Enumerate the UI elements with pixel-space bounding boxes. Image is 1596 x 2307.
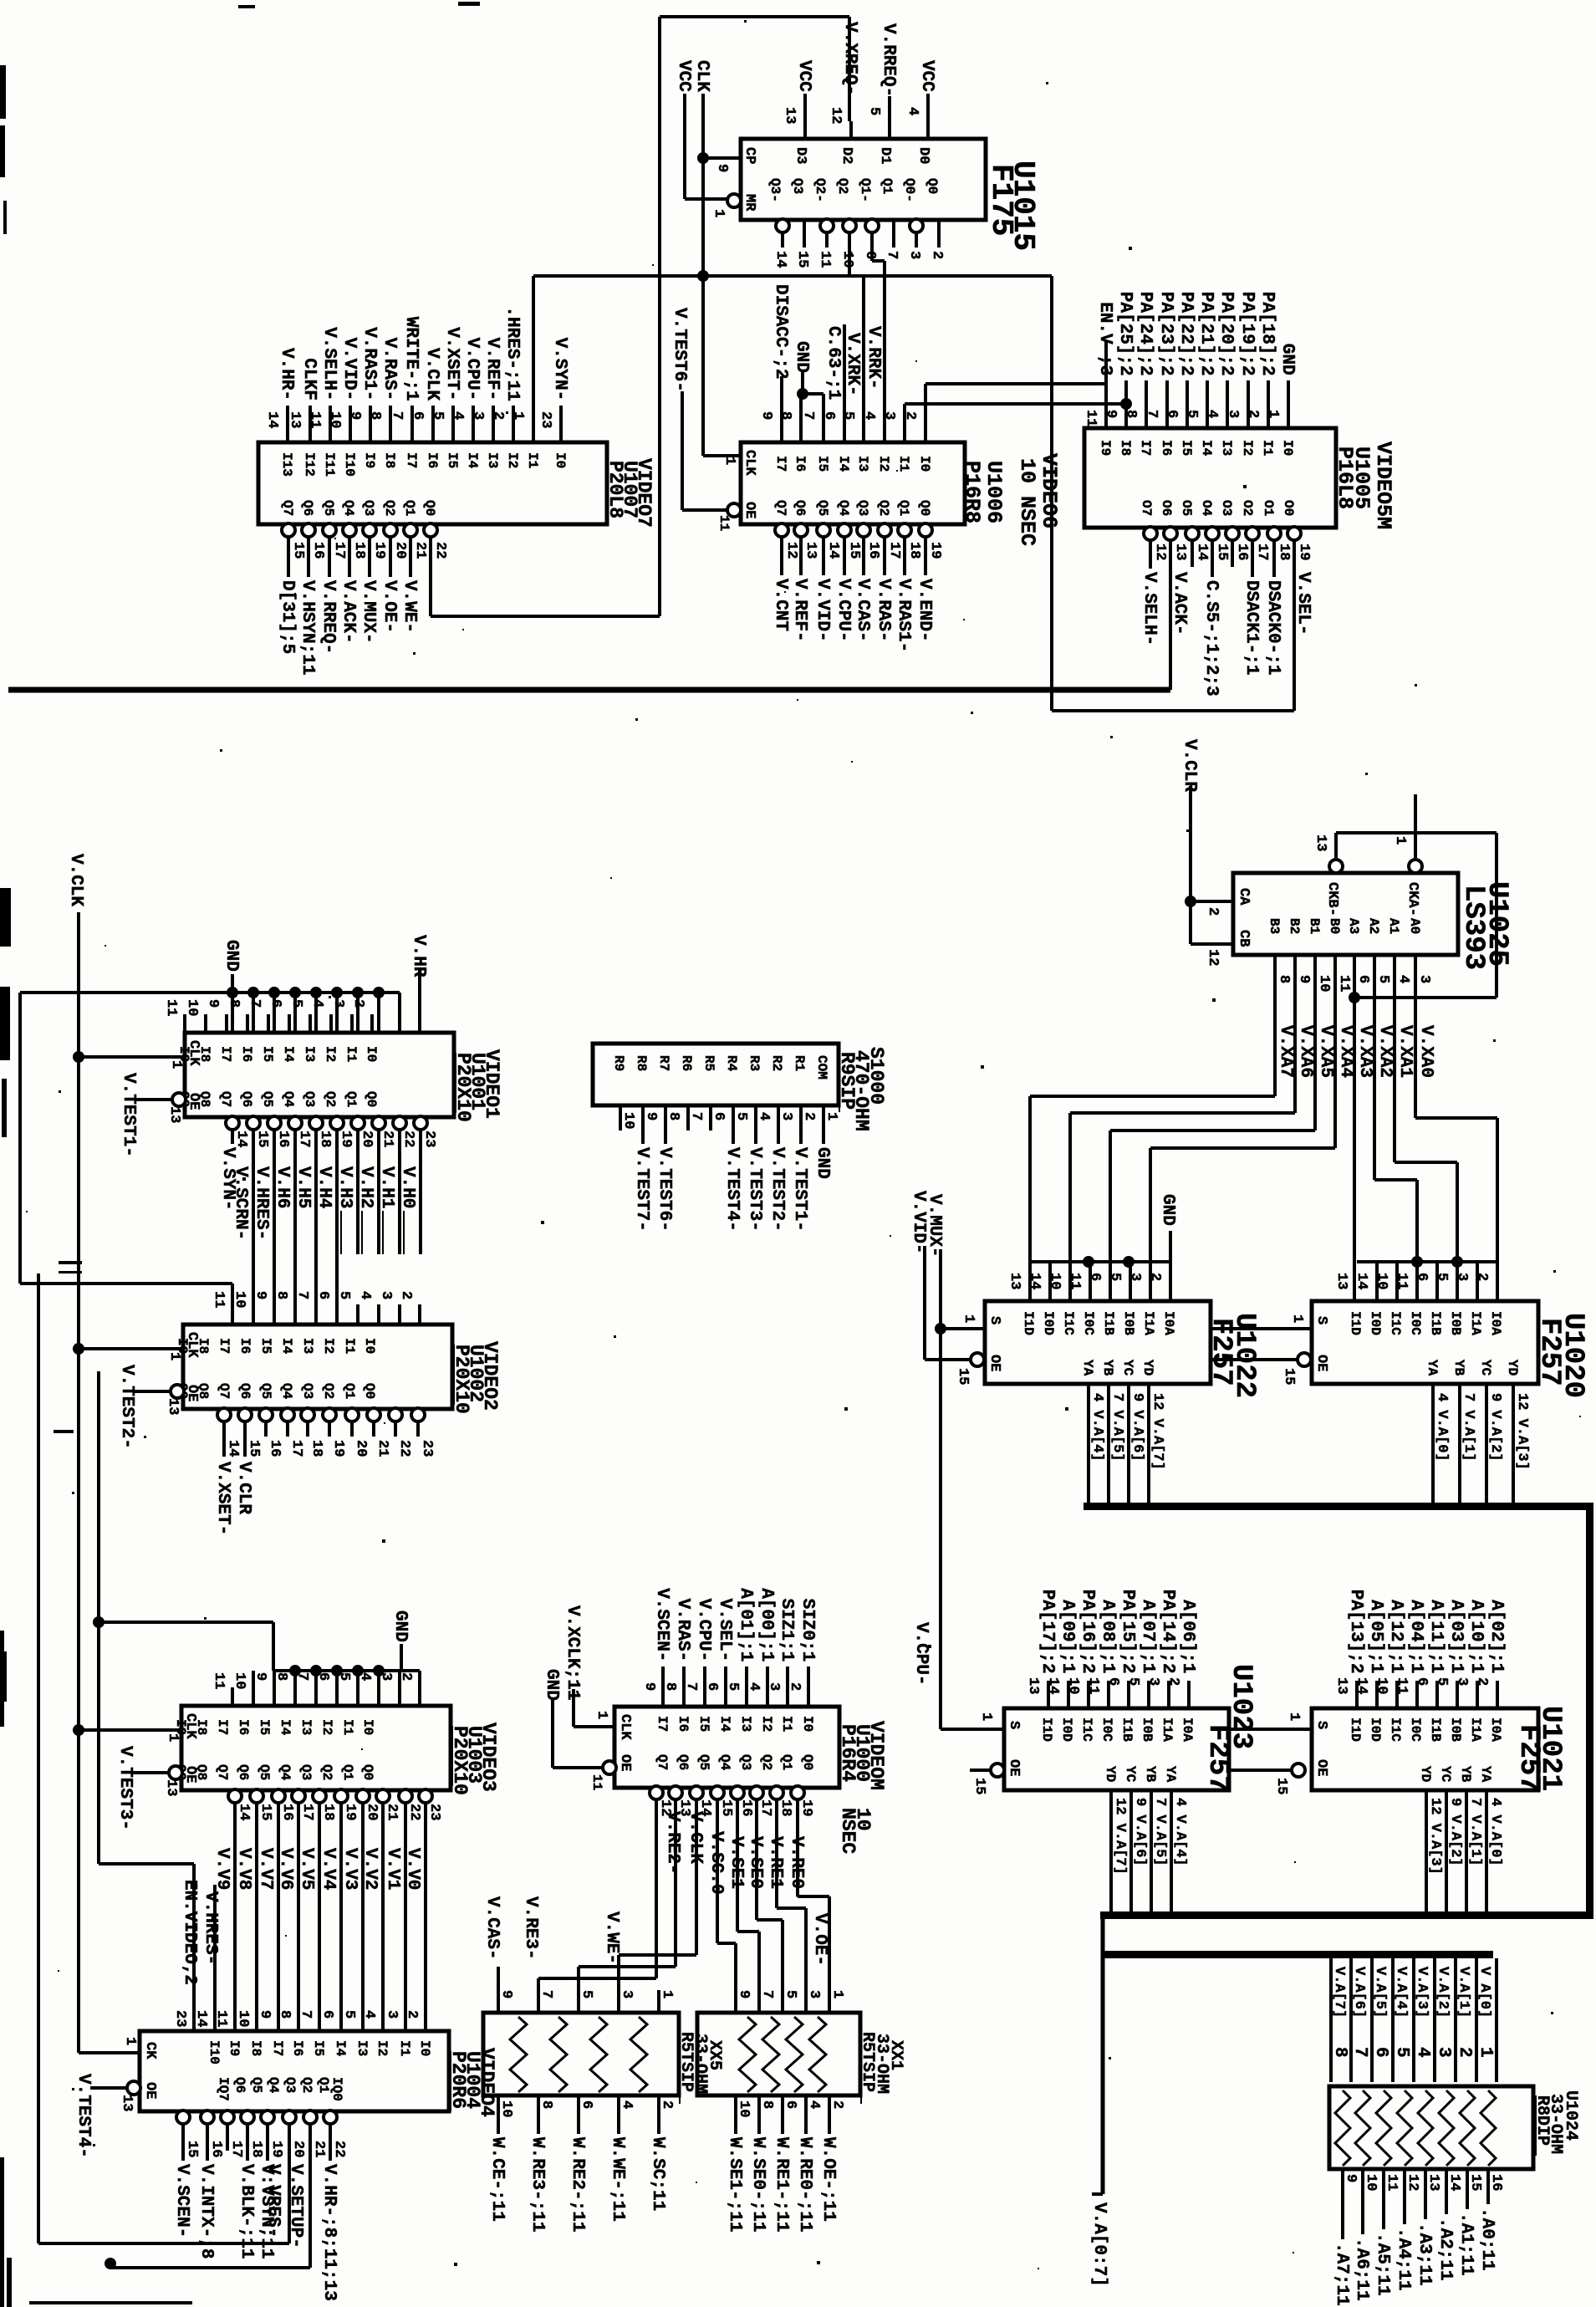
svg-text:4 V.A[4]: 4 V.A[4] [1172,1798,1188,1866]
svg-text:R1: R1 [792,1055,807,1071]
wire CLK net down to U1006 CLK pin 1 [697,270,709,282]
wire rail x24 from U1001 bus to U1002 [18,993,22,1284]
svg-text:Q6: Q6 [239,1091,254,1107]
svg-text:11: 11 [1336,975,1352,992]
svg-text:V.XA4: V.XA4 [1336,1025,1355,1078]
svg-text:U1006: U1006 [982,461,1006,523]
ic U1003 VIDEO3 box [181,1706,451,1790]
svg-text:Q3-: Q3- [767,178,783,202]
svg-text:4: 4 [450,411,466,420]
svg-text:4: 4 [357,1672,373,1681]
ic U1001 VIDEO1 left pin 13 OE bubble [172,1093,186,1106]
svg-text:5: 5 [430,411,446,420]
svg-text:I1A: I1A [1160,1717,1175,1742]
svg-text:11: 11 [213,2010,229,2027]
svg-text:V.XA2: V.XA2 [1375,1025,1395,1078]
wire V.XA4 to U1022 pin 3 [1333,1025,1337,1148]
svg-text:15: 15 [184,2141,200,2157]
svg-text:V.RAS-: V.RAS- [380,338,399,401]
svg-text:W.SE0-;11: W.SE0-;11 [748,2137,767,2232]
svg-text:DISACC-;2: DISACC-;2 [771,284,790,379]
wire U1025 pin13 loop right [1336,831,1497,835]
svg-text:I0B: I0B [1448,1717,1463,1742]
svg-text:V.OE-: V.OE- [810,1913,829,1966]
svg-text:I0A: I0A [1161,1311,1176,1335]
svg-text:Q3: Q3 [302,1091,317,1107]
svg-text:A[06];1: A[06];1 [1178,1600,1197,1673]
svg-text:15: 15 [1467,2174,1483,2191]
svg-text:O7: O7 [1139,500,1154,516]
svg-text:A[12];1: A[12];1 [1386,1600,1405,1673]
svg-text:A3: A3 [1346,918,1361,934]
svg-text:7: 7 [298,2010,314,2019]
svg-text:OE: OE [1006,1759,1022,1776]
ic XX5 bottom pins with numbers and labels [497,2095,500,2134]
svg-text:2: 2 [490,411,506,420]
svg-text:I1A: I1A [1468,1717,1483,1742]
wire crossbar above U1020 pins with junctions [1357,1260,1497,1263]
svg-text:I9: I9 [227,2040,242,2056]
ic U1001 VIDEO1 box [185,1033,454,1117]
svg-text:V.XA3: V.XA3 [1355,1025,1374,1078]
svg-text:Q2: Q2 [319,1764,334,1780]
svg-text:I1: I1 [1260,440,1275,456]
svg-text:PA[24];2: PA[24];2 [1135,292,1155,376]
svg-text:V.A[6]: V.A[6] [1351,1967,1367,2018]
svg-text:I0: I0 [1280,440,1295,456]
svg-text:10: 10 [839,251,855,268]
svg-text:O4: O4 [1199,500,1214,517]
svg-text:22: 22 [432,542,448,559]
wire OE chain U1023 to U1021 OE pin15 bubble [1229,1769,1292,1772]
svg-text:I6: I6 [425,452,440,468]
svg-text:V.TEST2-: V.TEST2- [767,1147,787,1232]
bus wire above U1001 with junctions [20,991,400,994]
svg-text:V.HRES-: V.HRES- [252,1166,271,1240]
svg-text:OE: OE [617,1754,633,1771]
svg-text:V.RAS-: V.RAS- [874,579,893,642]
svg-text:YA: YA [1163,1766,1178,1783]
svg-text:9: 9 [1103,410,1119,418]
svg-text:I5: I5 [445,452,460,468]
svg-text:V A[0]: V A[0] [1476,1967,1492,2018]
net labels GND V.TEST on S1000 pins [822,1131,825,1144]
svg-text:13: 13 [1425,2174,1441,2191]
pin label VCC on U1015 pin 4 [926,94,930,121]
svg-text:W.RE1-;11: W.RE1-;11 [772,2137,791,2232]
svg-text:CKA-: CKA- [1405,882,1420,916]
svg-text:V.WE-: V.WE- [602,1911,621,1964]
ic U1004 VIDEO4 P20R6 box [140,2031,449,2111]
svg-text:16: 16 [279,1804,295,1820]
svg-text:V.SCEN-: V.SCEN- [652,1588,671,1661]
svg-text:PA[15];2: PA[15];2 [1118,1590,1137,1674]
svg-text:YB: YB [1458,1766,1473,1783]
svg-text:PA[17];2: PA[17];2 [1038,1590,1057,1674]
svg-text:COM: COM [814,1055,829,1079]
svg-text:I4: I4 [717,1716,732,1733]
svg-text:V.A[2]: V.A[2] [1435,1967,1451,2018]
svg-text:Q3: Q3 [855,500,870,516]
svg-text:12: 12 [1405,2174,1420,2191]
svg-text:9 V.A[2]: 9 V.A[2] [1487,1393,1503,1462]
ic S1000 bottom pins 1-10 [822,1105,825,1131]
svg-text:9: 9 [643,1112,659,1120]
ic U1025 top pin 13 CKB- bubble and wire loop [1329,860,1343,873]
svg-text:10: 10 [235,2010,251,2027]
svg-text:3: 3 [766,1682,782,1691]
svg-text:5: 5 [579,1990,594,1998]
svg-text:.A4;11: .A4;11 [1394,2228,1413,2291]
svg-text:12: 12 [783,542,799,559]
svg-text:5: 5 [336,1672,352,1681]
svg-text:4: 4 [905,107,920,115]
svg-text:9: 9 [758,411,774,420]
svg-text:YB: YB [1451,1360,1466,1376]
svg-text:V.HRES-: V.HRES- [201,1891,220,1965]
svg-text:I4: I4 [279,1338,294,1355]
svg-text:9: 9 [1296,975,1312,983]
wire U1004 pin 17 stub [226,2137,229,2151]
svg-text:V.HR-: V.HR- [409,935,428,988]
svg-text:I1A: I1A [1141,1311,1156,1335]
svg-text:23: 23 [538,411,553,428]
svg-text:XX5: XX5 [705,2040,724,2070]
svg-text:V.VID-: V.VID- [339,338,359,401]
svg-text:R4: R4 [724,1055,739,1072]
wires U1001 pins 15-19 to U1002 pins with net labels [252,1129,255,1324]
svg-text:V.A[5]: V.A[5] [1372,1967,1388,2018]
svg-text:I2: I2 [319,1719,334,1735]
svg-text:VCC: VCC [794,60,813,92]
svg-text:GND: GND [792,341,811,373]
svg-text:I3: I3 [300,1338,315,1354]
svg-text:EN.VIDEO;2: EN.VIDEO;2 [180,1880,199,1985]
svg-text:I0: I0 [362,1338,377,1354]
svg-text:15: 15 [1214,544,1230,560]
svg-text:10: 10 [620,1112,636,1129]
svg-text:6: 6 [783,2100,798,2109]
svg-text:W.RE3-;11: W.RE3-;11 [528,2137,547,2232]
svg-text:C.63-;1: C.63-;1 [823,326,843,400]
svg-text:I5: I5 [815,456,830,472]
svg-text:IQ0: IQ0 [329,2077,344,2101]
svg-text:V.XA0: V.XA0 [1416,1025,1435,1078]
svg-text:B3: B3 [1267,918,1282,934]
svg-text:VCC: VCC [674,60,693,92]
svg-text:3: 3 [1225,410,1241,418]
svg-text:15: 15 [246,1440,262,1457]
svg-text:U1015: U1015 [1006,161,1040,251]
wire U1000 pin17 to XX1 pin5 [755,1799,758,1920]
svg-text:14: 14 [1354,1677,1369,1694]
svg-text:V.TEST4-: V.TEST4- [722,1147,742,1232]
svg-text:1: 1 [1265,410,1281,418]
svg-text:DSACK1-;1: DSACK1-;1 [1242,580,1261,675]
ic U1025 top pin 1 CKA- bubble and wire [1409,860,1422,873]
svg-text:8: 8 [273,1672,289,1681]
svg-text:YA: YA [1478,1766,1493,1783]
svg-text:V.HSYN;11: V.HSYN;11 [298,580,317,675]
svg-text:9 V.A[6]: 9 V.A[6] [1132,1798,1148,1866]
svg-text:3: 3 [1454,1677,1470,1686]
svg-text:Q0: Q0 [364,1091,379,1107]
svg-text:8: 8 [538,2100,554,2109]
svg-text:10: 10 [1065,1677,1081,1694]
svg-text:11: 11 [817,251,833,268]
svg-text:4: 4 [619,2100,635,2109]
svg-text:I5: I5 [1179,440,1194,456]
svg-text:I6: I6 [237,1338,252,1354]
svg-text:15: 15 [258,1804,273,1820]
svg-text:I0D: I0D [1041,1311,1056,1335]
svg-text:17: 17 [299,1804,315,1820]
svg-text:10: 10 [232,1672,247,1689]
svg-text:I7: I7 [218,1046,233,1062]
svg-text:V.XREQ-: V.XREQ- [840,22,859,95]
svg-text:Q3: Q3 [300,1383,315,1399]
wires U1001 top pins to bus [252,993,255,1033]
svg-text:18: 18 [1276,544,1292,560]
svg-text:A[07];1: A[07];1 [1138,1600,1157,1673]
svg-text:I7: I7 [217,1338,232,1354]
svg-text:8: 8 [1276,975,1292,983]
svg-text:PA[23];2: PA[23];2 [1156,292,1175,376]
svg-text:OE: OE [987,1355,1002,1371]
svg-text:Q1: Q1 [342,1383,357,1399]
ic U1015 F175 box [741,139,986,220]
svg-text:1: 1 [510,411,526,420]
svg-text:R9: R9 [611,1055,626,1071]
svg-text:Q3: Q3 [790,178,805,194]
svg-text:Q7: Q7 [215,1764,230,1780]
svg-text:CLK: CLK [617,1714,633,1740]
svg-text:I1B: I1B [1428,1311,1443,1335]
svg-text:7: 7 [1350,2047,1369,2058]
wire horizontal U1007 pin1 to x1258 [533,274,1052,278]
svg-text:10: 10 [232,1291,247,1308]
ic U1015 top pins 13 12 5 4 [803,121,807,139]
svg-text:GND: GND [1158,1194,1177,1226]
svg-text:I6: I6 [793,456,808,472]
svg-text:I4: I4 [278,1719,293,1736]
ic XX1 bottom pins with numbers and labels [734,2095,737,2134]
svg-text:I1: I1 [896,456,911,472]
svg-text:Q5: Q5 [257,1764,272,1780]
svg-text:VIDEO4: VIDEO4 [476,2048,497,2117]
svg-text:Q1-: Q1- [858,178,873,202]
svg-text:Q0: Q0 [360,1764,375,1780]
svg-text:19: 19 [268,2141,284,2157]
ic U1007 bottom pins 15-22 with bubbles [282,523,295,537]
bus columns V.A[0]-V.A[7] into U1024 [1329,1958,1333,2082]
svg-text:V.RAS1-: V.RAS1- [894,579,913,652]
svg-text:3: 3 [906,251,922,259]
svg-text:.A3;11: .A3;11 [1415,2223,1434,2286]
svg-text:V.RRK-: V.RRK- [864,326,883,390]
ic U1001 VIDEO1 left pin 1 CLK wire from V.CLK rail [73,1051,84,1063]
wire rail x118 branch to U1003 bus [93,1616,105,1628]
svg-text:I8: I8 [248,2040,263,2056]
ic U1005 top pins with numbers and labels [1104,407,1108,428]
svg-text:17: 17 [886,542,902,559]
wire U1004 pin20 V.VRES- L-route [288,2137,291,2243]
svg-text:6: 6 [1414,1273,1430,1281]
svg-text:19: 19 [371,542,387,559]
svg-text:YA: YA [1425,1360,1440,1376]
svg-text:8: 8 [273,1291,289,1299]
wire U1015 pin6 to U1006 pin4 V.RRK- [870,248,874,261]
svg-text:9 V.A[2]: 9 V.A[2] [1447,1798,1463,1866]
svg-text:7: 7 [294,1672,310,1681]
ic U1022 output wires V.A[4]-V.A[7] to bus [1087,1384,1090,1503]
svg-text:8: 8 [665,1112,681,1120]
svg-text:18: 18 [351,542,367,559]
svg-text:8: 8 [367,411,383,420]
svg-text:V.WE-: V.WE- [400,580,419,633]
svg-text:I3: I3 [354,2040,370,2056]
svg-text:Q3: Q3 [283,2077,298,2093]
svg-text:23: 23 [172,2010,188,2027]
svg-text:A[09];1: A[09];1 [1058,1600,1077,1673]
svg-text:YC: YC [1120,1360,1135,1376]
svg-text:YC: YC [1123,1766,1138,1783]
svg-text:23: 23 [426,1804,442,1820]
svg-text:11: 11 [1384,2174,1400,2191]
ic U1022 F257 box [985,1301,1211,1384]
svg-text:I4: I4 [333,2040,348,2057]
svg-text:2: 2 [1474,1677,1490,1686]
svg-text:17: 17 [331,542,347,559]
net label DSACK1-;1 on U1005 pin 17 [1251,554,1254,577]
svg-text:Q1: Q1 [402,500,417,516]
ic U1004 bottom pins 15-22 with bubbles and labels [176,2110,190,2124]
svg-text:8: 8 [778,411,793,420]
svg-text:Q2: Q2 [321,1383,336,1399]
svg-text:6: 6 [1371,2047,1390,2058]
svg-text:13: 13 [1333,1677,1349,1694]
svg-text:R6: R6 [679,1055,694,1071]
svg-text:13: 13 [119,2095,135,2111]
svg-text:V.SC.0-: V.SC.0- [706,1831,726,1905]
svg-text:Q5: Q5 [258,1383,273,1399]
svg-text:5: 5 [1434,1677,1450,1686]
pin label V.RREQ- on U1015 pin 5 [888,96,891,121]
svg-text:12: 12 [1152,544,1168,560]
svg-text:3: 3 [1127,1273,1143,1281]
wires U1001 pins 20-23 with labels V.H3-V.H0 [356,1129,359,1254]
svg-text:MR: MR [742,194,757,212]
svg-text:V.H0: V.H0 [398,1166,417,1208]
svg-text:Q0: Q0 [362,1383,377,1399]
svg-text:V.XSET-: V.XSET- [213,1462,232,1535]
ic XX5 resistors zigzags [510,2017,527,2092]
svg-text:Q1: Q1 [316,2077,331,2093]
svg-text:A[10];1: A[10];1 [1466,1600,1486,1673]
svg-text:13: 13 [1007,1273,1022,1289]
svg-text:Q5: Q5 [696,1754,711,1770]
svg-text:I0: I0 [360,1719,375,1735]
svg-text:V.RE3-: V.RE3- [521,1896,540,1960]
wire V.SEL- horizontal to left vertical [1052,709,1294,712]
bus wire above U1003 from rail [272,1622,275,1671]
svg-text:I1: I1 [344,1046,359,1062]
ic U1024 33-OHM R8DIP box [1329,2086,1533,2169]
svg-text:4 V.A[0]: 4 V.A[0] [1487,1798,1503,1866]
svg-text:V.CNT: V.CNT [771,579,790,631]
svg-text:I5: I5 [258,1338,273,1354]
svg-text:20: 20 [353,1440,369,1457]
svg-text:I5: I5 [260,1046,275,1062]
svg-text:I2: I2 [1240,440,1255,456]
svg-text:15: 15 [955,1368,971,1385]
svg-text:Q5: Q5 [249,2077,264,2093]
svg-text:V.OE-: V.OE- [380,580,399,633]
svg-text:V.RREQ-: V.RREQ- [319,580,338,654]
ic U1006 left pin 11 OE bubble from V.TEST6- [727,503,741,517]
svg-text:3: 3 [378,1672,394,1681]
svg-text:I2: I2 [375,2040,390,2056]
svg-text:3: 3 [619,1990,635,1998]
svg-text:O6: O6 [1159,500,1174,516]
svg-text:7 V.A[1]: 7 V.A[1] [1461,1393,1476,1462]
svg-text:A0: A0 [1407,918,1422,934]
svg-text:I0: I0 [364,1046,379,1062]
svg-text:YD: YD [1418,1766,1433,1782]
svg-text:VIDEO7: VIDEO7 [633,458,655,528]
svg-text:GND: GND [813,1147,832,1179]
svg-text:4: 4 [1204,410,1220,418]
ic U1002 VIDEO2 left pin 13 OE bubble [171,1385,184,1398]
svg-text:V.SYN-: V.SYN- [550,338,569,401]
svg-text:Q2: Q2 [835,178,850,194]
ground GND label above U1001 pin 11 [227,987,238,998]
svg-text:YD: YD [1505,1360,1520,1376]
wire bottom horizontal to rail x46 [38,2242,289,2245]
svg-text:Q7: Q7 [217,1383,232,1399]
svg-text:13: 13 [1025,1677,1041,1694]
svg-text:PA[20];2: PA[20];2 [1216,292,1236,376]
svg-text:I13: I13 [279,452,294,477]
svg-text:I0: I0 [800,1716,815,1732]
svg-text:Q4: Q4 [266,2077,281,2094]
svg-text:R5: R5 [701,1055,716,1071]
svg-text:7: 7 [1144,410,1160,418]
svg-text:6: 6 [1164,410,1180,418]
wire long thick bus V.ACK- to left edge [8,687,1170,693]
svg-text:16: 16 [275,1131,291,1147]
svg-text:1: 1 [961,1314,976,1323]
svg-text:P16R8: P16R8 [960,461,984,523]
svg-text:I5: I5 [696,1716,711,1732]
svg-text:Q1: Q1 [896,500,911,516]
svg-text:XX1: XX1 [886,2040,905,2070]
svg-text:4: 4 [357,1291,373,1299]
svg-text:8: 8 [277,2010,293,2019]
svg-text:5: 5 [866,107,882,115]
svg-text:10: 10 [1374,1273,1389,1289]
svg-text:V.XA6: V.XA6 [1296,1025,1315,1078]
svg-text:12 V.A[3]: 12 V.A[3] [1514,1393,1530,1470]
svg-text:I0B: I0B [1121,1311,1136,1335]
svg-text:PA[25];2: PA[25];2 [1115,292,1135,376]
ic U1002 VIDEO2 box [183,1324,452,1409]
svg-text:I8: I8 [197,1046,212,1062]
wire V.XA2 to U1020 pin 11 [1373,1025,1376,1180]
scan artifact speckles [744,20,747,23]
svg-text:6: 6 [579,2100,594,2109]
svg-text:CLKF: CLKF [299,358,319,400]
